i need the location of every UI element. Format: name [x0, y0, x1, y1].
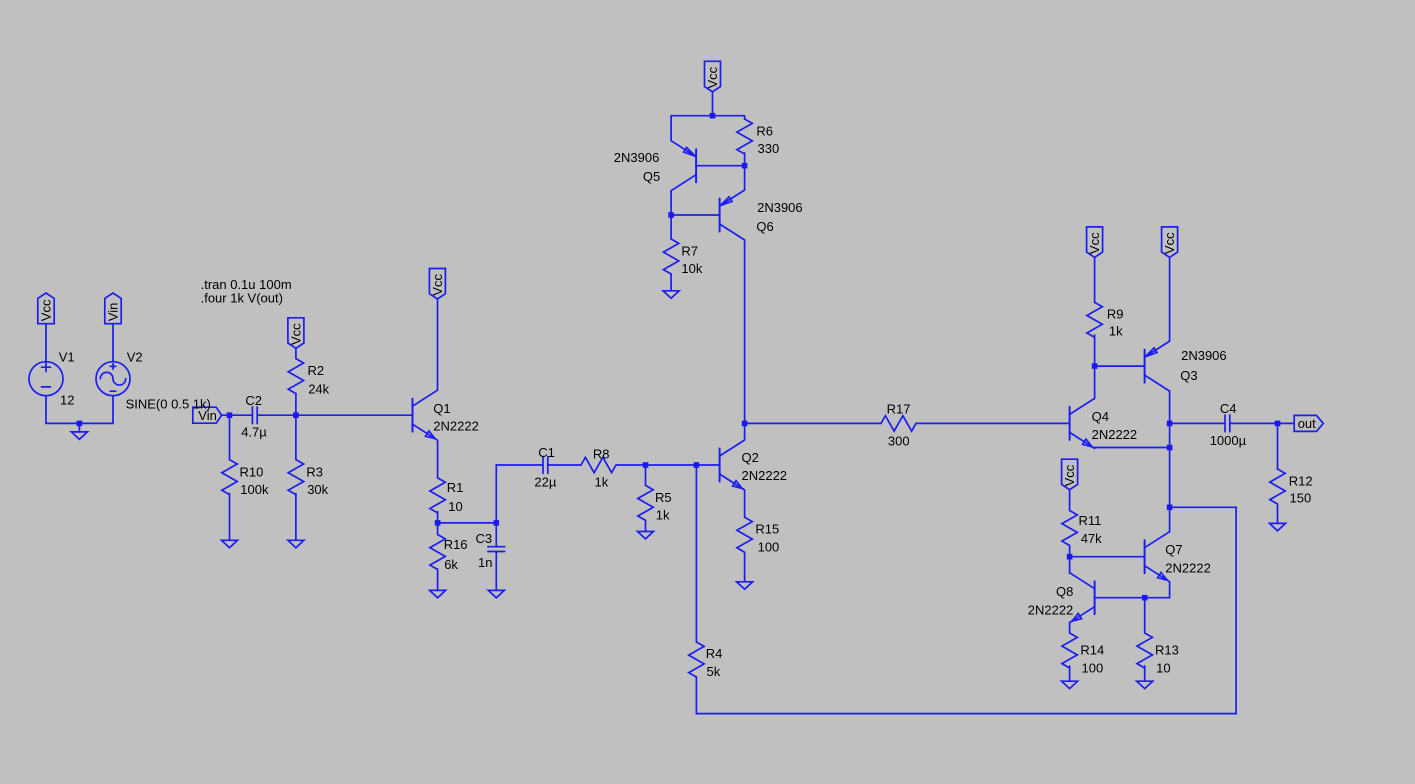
svg-text:2N3906: 2N3906: [1181, 348, 1227, 363]
svg-text:4.7µ: 4.7µ: [241, 425, 267, 440]
svg-text:C3: C3: [476, 531, 493, 546]
svg-text:330: 330: [758, 141, 780, 156]
svg-text:1000µ: 1000µ: [1210, 433, 1247, 448]
svg-text:R13: R13: [1155, 643, 1179, 658]
svg-text:Vin: Vin: [198, 408, 217, 423]
svg-text:V1: V1: [59, 350, 75, 365]
svg-text:Q5: Q5: [643, 169, 660, 184]
svg-text:12: 12: [60, 393, 74, 408]
svg-text:Q8: Q8: [1056, 584, 1073, 599]
svg-text:47k: 47k: [1081, 531, 1102, 546]
svg-text:100: 100: [1082, 660, 1104, 675]
svg-text:.four 1k V(out): .four 1k V(out): [201, 291, 283, 306]
svg-text:Vcc: Vcc: [1162, 232, 1177, 254]
svg-text:R3: R3: [306, 465, 323, 480]
svg-text:10: 10: [448, 499, 462, 514]
svg-text:Q6: Q6: [756, 219, 773, 234]
svg-text:6k: 6k: [444, 557, 458, 572]
svg-text:2N2222: 2N2222: [1092, 427, 1138, 442]
svg-text:C2: C2: [245, 393, 262, 408]
svg-text:2N2222: 2N2222: [1165, 560, 1211, 575]
svg-text:R15: R15: [755, 522, 779, 537]
svg-text:Vcc: Vcc: [705, 66, 720, 88]
svg-text:Q7: Q7: [1165, 542, 1182, 557]
svg-text:Q4: Q4: [1092, 409, 1109, 424]
svg-text:10: 10: [1156, 660, 1170, 675]
svg-text:1n: 1n: [478, 555, 492, 570]
svg-text:R6: R6: [756, 124, 773, 139]
svg-text:Q3: Q3: [1180, 368, 1197, 383]
svg-text:C4: C4: [1220, 401, 1237, 416]
svg-text:22µ: 22µ: [534, 474, 556, 489]
svg-text:2N3906: 2N3906: [757, 200, 803, 215]
svg-text:Q2: Q2: [742, 450, 759, 465]
svg-text:V2: V2: [127, 350, 143, 365]
svg-text:Vin: Vin: [106, 303, 121, 322]
svg-text:R16: R16: [444, 537, 468, 552]
svg-text:R11: R11: [1079, 513, 1102, 528]
svg-text:24k: 24k: [308, 381, 329, 396]
svg-text:150: 150: [1290, 491, 1312, 506]
svg-text:R17: R17: [887, 402, 911, 417]
svg-text:1k: 1k: [1109, 323, 1123, 338]
svg-text:Vcc: Vcc: [1087, 232, 1102, 254]
svg-text:Vcc: Vcc: [39, 299, 54, 321]
svg-text:100: 100: [758, 539, 780, 554]
svg-text:R7: R7: [681, 244, 698, 259]
svg-text:2N2222: 2N2222: [433, 419, 479, 434]
svg-text:300: 300: [888, 434, 910, 449]
svg-text:R9: R9: [1107, 306, 1124, 321]
svg-text:5k: 5k: [707, 664, 721, 679]
svg-text:2N2222: 2N2222: [742, 468, 788, 483]
svg-text:Q1: Q1: [433, 401, 450, 416]
svg-text:2N3906: 2N3906: [614, 150, 660, 165]
svg-text:30k: 30k: [307, 482, 328, 497]
svg-text:R5: R5: [655, 490, 672, 505]
svg-text:Vcc: Vcc: [430, 274, 445, 296]
svg-text:Vcc: Vcc: [1062, 464, 1077, 486]
svg-text:100k: 100k: [240, 482, 269, 497]
svg-text:R2: R2: [308, 363, 325, 378]
svg-text:R12: R12: [1289, 473, 1313, 488]
svg-text:R1: R1: [447, 480, 464, 495]
svg-text:10k: 10k: [681, 261, 702, 276]
svg-text:R8: R8: [593, 446, 610, 461]
svg-text:C1: C1: [538, 445, 555, 460]
svg-text:R4: R4: [706, 646, 723, 661]
svg-text:R14: R14: [1080, 643, 1104, 658]
svg-text:out: out: [1298, 416, 1316, 431]
svg-text:R10: R10: [240, 465, 264, 480]
svg-text:Vcc: Vcc: [288, 323, 303, 345]
svg-text:1k: 1k: [595, 474, 609, 489]
svg-text:1k: 1k: [656, 508, 670, 523]
svg-text:2N2222: 2N2222: [1028, 603, 1074, 618]
